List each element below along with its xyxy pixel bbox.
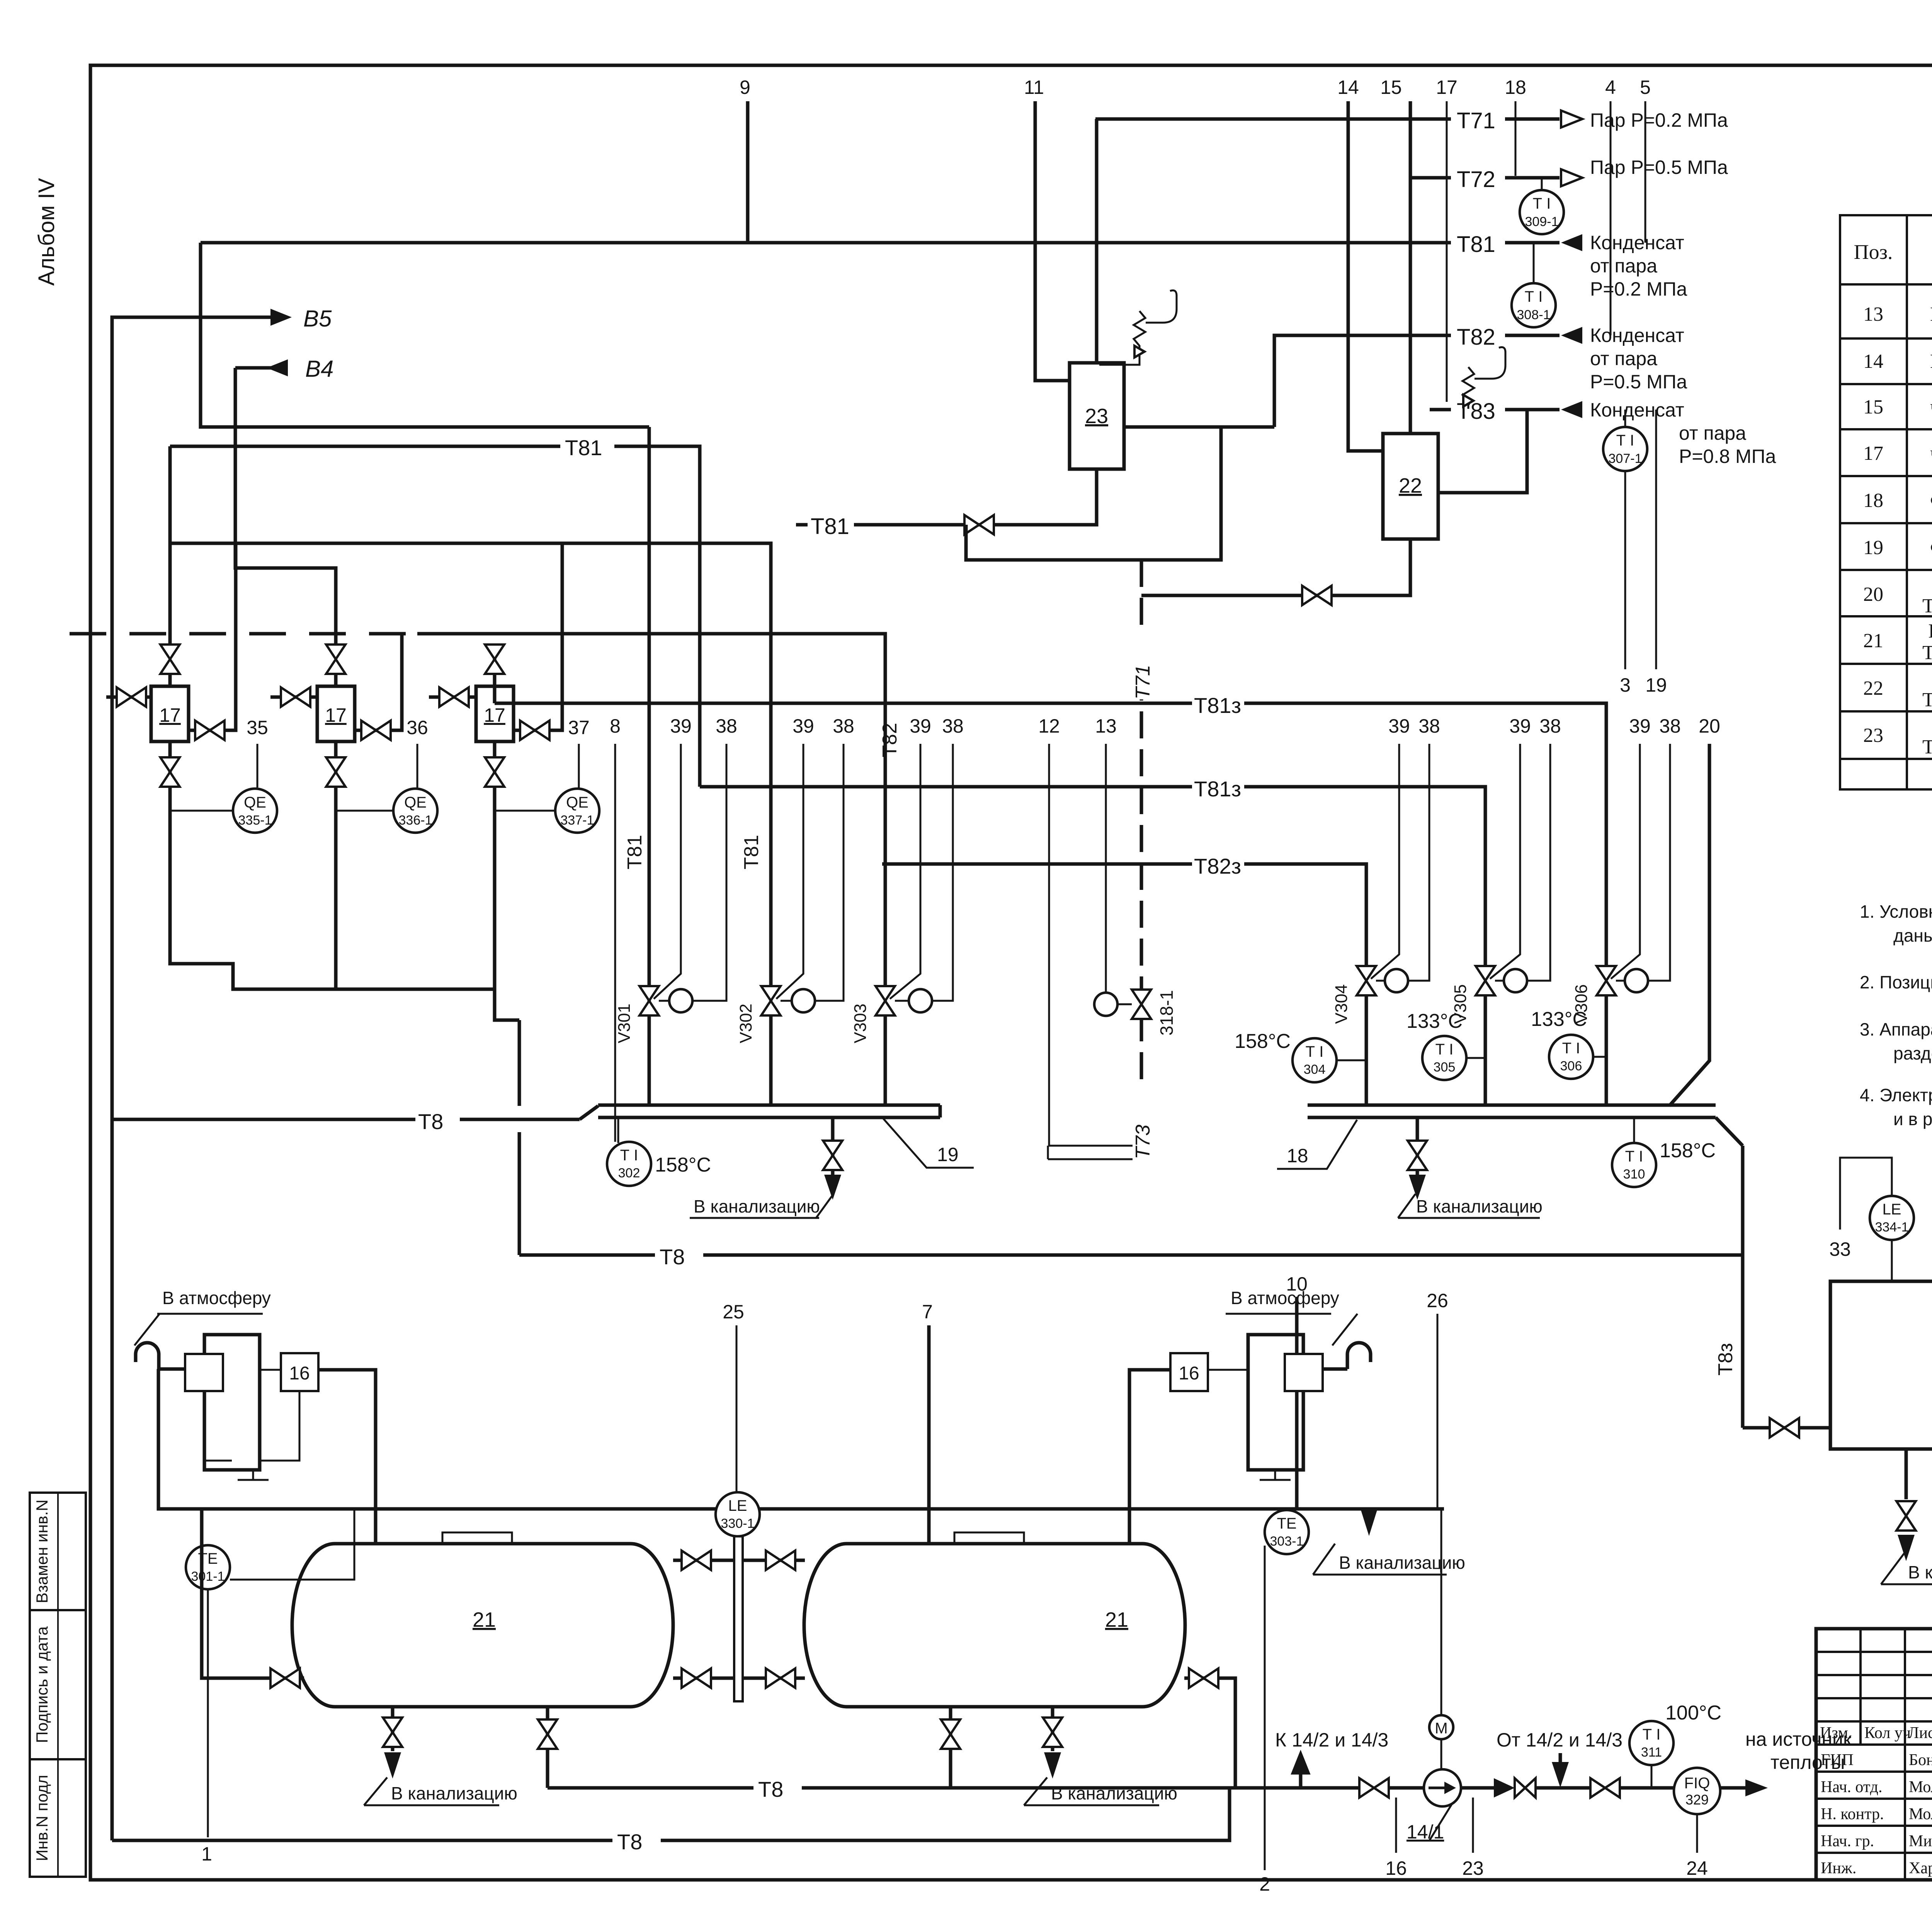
position number row (610, 715, 1720, 737)
drain flag to sewer (collector 19) (816, 1194, 833, 1218)
pump motor M (1429, 1715, 1453, 1739)
svg-text:FIQ: FIQ (1684, 1775, 1710, 1792)
leader 8 to TI302 (614, 744, 616, 1142)
sampler drain staircase (170, 811, 336, 989)
svg-text:38: 38 (716, 715, 737, 737)
tank2 outlet valve right (1184, 1678, 1235, 1788)
svg-text:Т81: Т81 (624, 835, 646, 869)
svg-text:Т8з: Т8з (1714, 1343, 1737, 1376)
left revision grid (1859, 1629, 1862, 1745)
valve below C (493, 742, 497, 811)
svg-text:335-1: 335-1 (238, 813, 272, 828)
svg-text:301-1: 301-1 (191, 1569, 225, 1584)
svg-text:4. Электрические задвижки поз: 4. Электрические задвижки поз. V101-V106… (1860, 1085, 1932, 1105)
instrument QE 336-1 (336, 810, 393, 812)
instrument TI 305 (1422, 1036, 1466, 1080)
svg-text:I-3-Т37.03: I-3-Т37.03 (1928, 620, 1932, 642)
svg-text:Ф219х5 L=2000мм: Ф219х5 L=2000мм (1930, 537, 1932, 559)
svg-text:теплоты: теплоты (1770, 1752, 1845, 1773)
expansion tank 23 (1070, 363, 1124, 469)
instrument TI 310 (1633, 1117, 1635, 1143)
svg-text:310: 310 (1623, 1167, 1645, 1182)
NOTES (1860, 860, 1932, 1129)
svg-text:Конденсат: Конденсат (1590, 399, 1684, 421)
svg-text:38: 38 (1418, 715, 1440, 737)
check valve (1494, 1778, 1515, 1798)
svg-text:ТД сер. 903-3-05с.91: ТД сер. 903-3-05с.91 (1922, 736, 1932, 758)
svg-text:Инж.: Инж. (1821, 1859, 1856, 1877)
svg-text:38: 38 (942, 715, 964, 737)
svg-text:23: 23 (1863, 724, 1883, 747)
node 16 leader (1395, 1798, 1397, 1853)
electric valve V303 (876, 986, 895, 1015)
svg-text:2. Позиции приборов указаны п: 2. Позиции приборов указаны по специфика… (1860, 972, 1932, 992)
big return loop vertical (112, 317, 285, 1840)
svg-text:3. Аппаратура,обозначенная ри: 3. Аппаратура,обозначенная римской цифро… (1860, 1019, 1932, 1039)
svg-text:В5: В5 (303, 306, 332, 332)
B4 arrow and line (267, 359, 288, 376)
svg-text:16: 16 (1385, 1857, 1407, 1879)
svg-text:39: 39 (670, 715, 692, 737)
svg-text:18: 18 (1287, 1145, 1308, 1167)
svg-text:Кс-12-50: Кс-12-50 (1930, 303, 1932, 325)
valve above B (326, 645, 345, 674)
tank1 drain 2 to T8 (546, 1707, 549, 1788)
svg-text:158°С: 158°С (655, 1154, 711, 1176)
right seal pot (1285, 1354, 1323, 1391)
left vent hook (136, 1343, 159, 1369)
svg-text:24: 24 (1686, 1857, 1708, 1879)
right hydroseal column (1248, 1335, 1303, 1470)
line T83 (1438, 410, 1560, 493)
svg-text:23: 23 (1462, 1857, 1484, 1879)
svg-text:Т73: Т73 (1132, 1124, 1154, 1159)
svg-text:даны по ГОСТ 21.404-85: даны по ГОСТ 21.404-85 (1893, 925, 1932, 946)
svg-text:21: 21 (473, 1608, 496, 1631)
svg-text:на источник: на источник (1745, 1728, 1852, 1750)
leaders 39/38 V303 (890, 744, 920, 999)
svg-text:17: 17 (484, 704, 505, 726)
svg-text:15: 15 (1380, 77, 1402, 98)
svg-text:12: 12 (1038, 715, 1060, 737)
svg-text:Т I: Т I (1306, 1043, 1324, 1060)
svg-text:черт. ТХ3Н-1: черт. ТХ3Н-1 (1930, 442, 1932, 464)
electric valve V304 (1357, 966, 1376, 995)
svg-text:330-1: 330-1 (721, 1516, 755, 1531)
svg-text:М: М (1435, 1720, 1447, 1737)
svg-text:К 14/2 и 14/3: К 14/2 и 14/3 (1275, 1729, 1388, 1751)
svg-text:Т8: Т8 (418, 1109, 443, 1134)
steam arrow P=0.5 (1561, 169, 1582, 186)
svg-text:318-1: 318-1 (1156, 990, 1177, 1036)
svg-text:В канализацию: В канализацию (391, 1783, 517, 1803)
svg-text:14: 14 (1337, 77, 1359, 98)
right seal drain (1274, 1470, 1276, 1479)
svg-text:39: 39 (1629, 715, 1651, 737)
valve above A (160, 645, 180, 674)
svg-text:Р=0.2 МПа: Р=0.2 МПа (1590, 278, 1687, 300)
svg-text:В канализацию: В канализацию (694, 1196, 820, 1216)
svg-text:от пара: от пара (1590, 255, 1657, 277)
valve 318-1 (1132, 990, 1151, 1019)
condensate tank 21 no.1 (292, 1544, 673, 1707)
svg-text:V303: V303 (851, 1003, 870, 1043)
svg-text:Т I: Т I (620, 1147, 638, 1164)
condensate arrow P=0.8 (1561, 401, 1582, 418)
svg-text:В атмосферу: В атмосферу (1231, 1288, 1339, 1308)
svg-text:V302: V302 (736, 1003, 755, 1043)
svg-text:309-1: 309-1 (1525, 214, 1559, 229)
svg-text:39: 39 (910, 715, 931, 737)
line to V302 (170, 543, 771, 1001)
valve left of B (270, 696, 317, 699)
node 19 leader (1655, 410, 1657, 669)
svg-text:5: 5 (1640, 77, 1651, 98)
svg-text:Т81: Т81 (811, 514, 849, 539)
tank1 inlet valve (202, 1509, 304, 1678)
svg-text:37: 37 (568, 717, 590, 738)
line T8 main (519, 1253, 1743, 1257)
svg-text:16: 16 (1179, 1363, 1199, 1384)
leader 13 to 318-1 (1105, 744, 1107, 993)
svg-text:3: 3 (1620, 674, 1631, 696)
svg-text:Т I: Т I (1435, 1041, 1454, 1058)
svg-text:19: 19 (1863, 537, 1883, 559)
svg-text:Митрофанова: Митрофанова (1909, 1832, 1932, 1850)
svg-text:36: 36 (406, 717, 428, 738)
tank 23 right outlet (1124, 425, 1274, 429)
svg-text:Т81: Т81 (1457, 232, 1495, 257)
line T81 main (201, 241, 1560, 245)
line T81z no.1 (495, 703, 1606, 966)
collector 18 bar (1308, 1104, 1716, 1107)
svg-text:Н. контр.: Н. контр. (1821, 1805, 1884, 1823)
svg-text:Т71: Т71 (1457, 108, 1495, 133)
svg-text:разделе электрооборудования: разделе электрооборудования (1893, 1043, 1932, 1063)
tank2 drain 2 (1051, 1707, 1054, 1751)
svg-text:В4: В4 (305, 356, 333, 382)
valve on tank22 drain (1302, 586, 1332, 605)
svg-text:Молчанов: Молчанов (1909, 1805, 1932, 1823)
line T82 (1274, 335, 1560, 427)
suction valve (1359, 1778, 1389, 1798)
right seal inlet from tank2 (1129, 1370, 1170, 1544)
svg-text:QE: QE (404, 794, 427, 811)
svg-text:304: 304 (1304, 1062, 1326, 1077)
svg-text:От 14/2 и 14/3: От 14/2 и 14/3 (1497, 1729, 1622, 1751)
svg-text:303-1: 303-1 (1270, 1534, 1304, 1549)
svg-text:Т82з: Т82з (1194, 854, 1241, 878)
svg-text:Нач. гр.: Нач. гр. (1821, 1832, 1874, 1850)
instrument TI 302 (617, 1117, 619, 1143)
svg-text:158°С: 158°С (1660, 1139, 1716, 1162)
svg-text:133°С: 133°С (1531, 1008, 1587, 1031)
svg-text:Т I: Т I (1525, 288, 1543, 305)
leaders 39/38 V304 (1371, 744, 1399, 979)
svg-text:Взамен инв.N: Взамен инв.N (33, 1500, 51, 1604)
svg-text:Т I: Т I (1562, 1040, 1580, 1057)
svg-text:15: 15 (1863, 396, 1883, 418)
tank22 drain to T71 line (1141, 539, 1410, 595)
svg-text:302: 302 (618, 1166, 640, 1180)
svg-text:Лист: Лист (1908, 1724, 1932, 1742)
valve right of A (189, 543, 236, 730)
svg-text:В канализацию: В канализацию (1908, 1562, 1932, 1582)
instrument LE 330-1 (716, 1492, 760, 1536)
left seal drain (204, 1391, 232, 1461)
line T81 to samplers (170, 446, 700, 787)
svg-text:35: 35 (247, 717, 268, 738)
line T81z no.2 (700, 787, 1485, 966)
line T81 upper branch (201, 243, 649, 427)
svg-text:V301: V301 (615, 1003, 634, 1043)
svg-text:18: 18 (1505, 77, 1526, 98)
svg-text:39: 39 (1509, 715, 1531, 737)
svg-text:В атмосферу: В атмосферу (162, 1288, 271, 1308)
box 16 left (281, 1353, 318, 1391)
svg-text:16: 16 (289, 1363, 310, 1384)
line T8z down to tank 20 (1741, 1146, 1745, 1428)
svg-text:ТЕ: ТЕ (1277, 1515, 1296, 1532)
svg-text:LЕ: LЕ (728, 1497, 747, 1514)
svg-text:308-1: 308-1 (1517, 308, 1551, 322)
svg-text:Поз.: Поз. (1854, 240, 1893, 264)
node 3 leader (1624, 471, 1626, 669)
right vent hook (1347, 1343, 1371, 1369)
svg-text:Т8: Т8 (617, 1830, 642, 1854)
TITLE BLOCK (1816, 1629, 1932, 1932)
svg-text:17: 17 (159, 704, 181, 726)
svg-text:Т82: Т82 (1457, 325, 1495, 350)
line T8 lower B return (112, 1788, 1230, 1840)
svg-text:158°С: 158°С (1235, 1030, 1291, 1053)
tank1 drain 1 (391, 1707, 395, 1751)
instrument TI 306 (1549, 1035, 1593, 1079)
instrument TI 307-1 (1624, 410, 1626, 427)
instrument TI 304 (1293, 1038, 1337, 1082)
svg-text:LЕ: LЕ (1883, 1201, 1901, 1218)
leader 20 to collector (1669, 744, 1709, 1106)
leaders 39/38 V306 (1611, 744, 1640, 979)
svg-text:от пара: от пара (1590, 348, 1657, 369)
arrow to heat source (1745, 1779, 1768, 1796)
svg-text:100°С: 100°С (1665, 1702, 1721, 1724)
valve right of B (355, 634, 402, 730)
level gauge column (734, 1536, 743, 1701)
line T8 from loop to collector 19 (112, 1118, 580, 1121)
svg-text:Альбом IV: Альбом IV (34, 178, 59, 286)
electric valve V305 (1476, 966, 1495, 995)
svg-text:11: 11 (1024, 77, 1044, 98)
svg-text:26: 26 (1427, 1290, 1448, 1311)
svg-text:черт. ТХ3Н-2: черт. ТХ3Н-2 (1930, 396, 1932, 418)
svg-text:Нач. отд.: Нач. отд. (1821, 1778, 1883, 1796)
svg-text:13: 13 (1095, 715, 1117, 737)
svg-text:В канализацию: В канализацию (1339, 1553, 1465, 1573)
svg-text:Т I: Т I (1616, 432, 1634, 449)
tank23 blowdown jog (966, 427, 1221, 560)
svg-text:22: 22 (1863, 677, 1883, 699)
svg-text:23: 23 (1085, 405, 1108, 428)
instrument FIQ 329 (1674, 1768, 1720, 1814)
svg-text:25: 25 (723, 1301, 744, 1323)
collector 19 bar (598, 1104, 940, 1107)
tank1 manhole (442, 1532, 512, 1544)
B5 arrow (270, 309, 292, 326)
tank20 inlet valve (1743, 1426, 1830, 1430)
instrument TE 301-1 (186, 1545, 230, 1589)
svg-text:311: 311 (1641, 1745, 1662, 1760)
instrument LE 334-1 (1870, 1196, 1914, 1240)
svg-text:38: 38 (833, 715, 854, 737)
svg-text:20: 20 (1699, 715, 1720, 737)
svg-text:Конденсат: Конденсат (1590, 325, 1684, 346)
sampler 17 unit A (151, 686, 189, 742)
gauge bottom connections (673, 1677, 734, 1680)
svg-text:Т81з: Т81з (1194, 777, 1241, 801)
svg-text:4: 4 (1605, 77, 1616, 98)
svg-text:21: 21 (1105, 1608, 1128, 1631)
svg-text:18: 18 (1863, 490, 1883, 512)
svg-text:2: 2 (1259, 1873, 1270, 1895)
svg-text:Т71: Т71 (1132, 665, 1154, 699)
svg-text:38: 38 (1539, 715, 1561, 737)
valve below B (334, 742, 338, 811)
drain arrow on header (1361, 1509, 1378, 1536)
line T82z (882, 864, 1366, 966)
tank2 drain 1 to T8 (949, 1707, 952, 1788)
collector 19 drain valve (831, 1117, 835, 1175)
collector 18 drain valve (1416, 1117, 1419, 1175)
electric valve V301 (639, 986, 659, 1015)
svg-text:38: 38 (1659, 715, 1681, 737)
gauge top connections (673, 1559, 734, 1562)
svg-text:19: 19 (1645, 674, 1667, 696)
steam arrow P=0.2 (1561, 111, 1582, 128)
electric valve V302 (761, 986, 781, 1015)
svg-text:329: 329 (1685, 1792, 1709, 1808)
svg-text:Кс-20-50: Кс-20-50 (1930, 350, 1932, 372)
svg-text:305: 305 (1434, 1060, 1456, 1075)
svg-text:Т8: Т8 (758, 1777, 783, 1801)
svg-text:QE: QE (244, 794, 266, 811)
svg-text:17: 17 (1436, 77, 1458, 98)
node 23 leader (1472, 1798, 1474, 1853)
svg-text:В канализацию: В канализацию (1416, 1196, 1543, 1216)
svg-text:14: 14 (1863, 350, 1883, 372)
svg-text:7: 7 (922, 1301, 933, 1323)
svg-text:1. Условные обозначения прибо: 1. Условные обозначения приборов и элект… (1860, 901, 1932, 922)
V301-303 drop to collector (769, 1015, 773, 1105)
relief valve on tank 22 (1463, 367, 1474, 409)
sampler A feed (168, 446, 172, 646)
valve left of A (106, 696, 151, 699)
svg-text:Ф159х4 L=2000мм: Ф159х4 L=2000мм (1930, 490, 1932, 512)
discharge valve (1590, 1778, 1620, 1798)
svg-text:Подпись и дата: Подпись и дата (33, 1626, 51, 1743)
svg-text:ТД сер. 5.904-43 в 0,1: ТД сер. 5.904-43 в 0,1 (1922, 595, 1932, 617)
svg-text:Т81: Т81 (565, 435, 602, 460)
svg-text:Пар Р=0.5 МПа: Пар Р=0.5 МПа (1590, 156, 1728, 178)
svg-text:22: 22 (1399, 474, 1422, 497)
electric valve V306 (1597, 966, 1616, 995)
valve above C (485, 645, 504, 674)
svg-text:336-1: 336-1 (399, 813, 432, 828)
svg-text:33: 33 (1829, 1238, 1851, 1260)
valve left of C (429, 696, 476, 699)
svg-text:17: 17 (325, 704, 347, 726)
expansion tank 22 (1383, 434, 1438, 539)
drain flag to sewer (collector 18) (1398, 1194, 1415, 1218)
tank23 drain line T81 (815, 469, 1097, 525)
sampler 17 unit B (317, 686, 355, 742)
V301 vertical from T81 branch (648, 427, 651, 1105)
svg-text:337-1: 337-1 (561, 813, 594, 828)
svg-text:1: 1 (201, 1843, 212, 1865)
SPECIFICATION TABLE (1840, 159, 1932, 789)
svg-text:Т I: Т I (1625, 1148, 1643, 1165)
svg-text:Т81з: Т81з (1194, 693, 1241, 718)
svg-text:Р=0.8 МПа: Р=0.8 МПа (1679, 446, 1776, 467)
sampler drain downcomer (518, 1020, 521, 1106)
svg-text:Молчанов: Молчанов (1909, 1778, 1932, 1796)
box 16 right (1170, 1353, 1208, 1391)
instrument TI 308-1 (1533, 243, 1535, 283)
svg-text:Кол уч: Кол уч (1864, 1724, 1911, 1742)
svg-text:Т81: Т81 (740, 835, 763, 869)
svg-text:9: 9 (740, 77, 750, 98)
svg-text:39: 39 (1388, 715, 1410, 737)
tank 20 (1830, 1281, 1932, 1449)
svg-text:ТД сер. 903-3-04с.91: ТД сер. 903-3-04с.91 (1922, 642, 1932, 664)
valve right of C (514, 543, 562, 730)
svg-text:V304: V304 (1332, 984, 1351, 1024)
svg-text:20: 20 (1863, 583, 1883, 605)
svg-text:ТД сер. 903-3-05с.91: ТД сер. 903-3-05с.91 (1922, 689, 1932, 711)
svg-text:Бондарец: Бондарец (1909, 1751, 1932, 1769)
left hydroseal column (204, 1335, 260, 1470)
leaders 39/38 V301 (654, 744, 681, 999)
svg-text:8: 8 (610, 715, 621, 737)
svg-text:от пара: от пара (1679, 422, 1746, 444)
leader 12 (1049, 744, 1133, 1146)
tank20 drain (1905, 1449, 1908, 1499)
svg-text:39: 39 (793, 715, 814, 737)
sampler 17 unit C (476, 686, 514, 742)
tank2 manhole (954, 1532, 1024, 1544)
svg-text:13: 13 (1863, 303, 1883, 325)
svg-text:Харитонова: Харитонова (1909, 1859, 1932, 1877)
instrument QE 335-1 (170, 810, 233, 812)
leaders 39/38 V302 (776, 744, 803, 999)
svg-text:Р=0.5 МПа: Р=0.5 МПа (1590, 371, 1687, 393)
condensate tank 21 no.2 (804, 1544, 1185, 1707)
svg-text:Конденсат: Конденсат (1590, 232, 1684, 253)
left seal pot (185, 1354, 223, 1391)
line T71 (1095, 117, 1560, 121)
svg-text:Т I: Т I (1533, 195, 1551, 212)
instrument TI 309-1 (1541, 178, 1543, 190)
T71/T73 blowdown line (1140, 560, 1143, 1159)
svg-text:и в разделе ЭМ3 обозначаются 1: и в разделе ЭМ3 обозначаются 1з - 6з (1893, 1109, 1932, 1129)
svg-text:QE: QE (566, 794, 588, 811)
valve on T81 drain (964, 515, 994, 534)
svg-text:Инв.N подл: Инв.N подл (33, 1775, 51, 1861)
svg-text:Пар Р=0.2 МПа: Пар Р=0.2 МПа (1590, 109, 1728, 131)
line T8 lower A (548, 1786, 1359, 1790)
svg-text:17: 17 (1863, 442, 1883, 464)
long header line (158, 1369, 1444, 1509)
